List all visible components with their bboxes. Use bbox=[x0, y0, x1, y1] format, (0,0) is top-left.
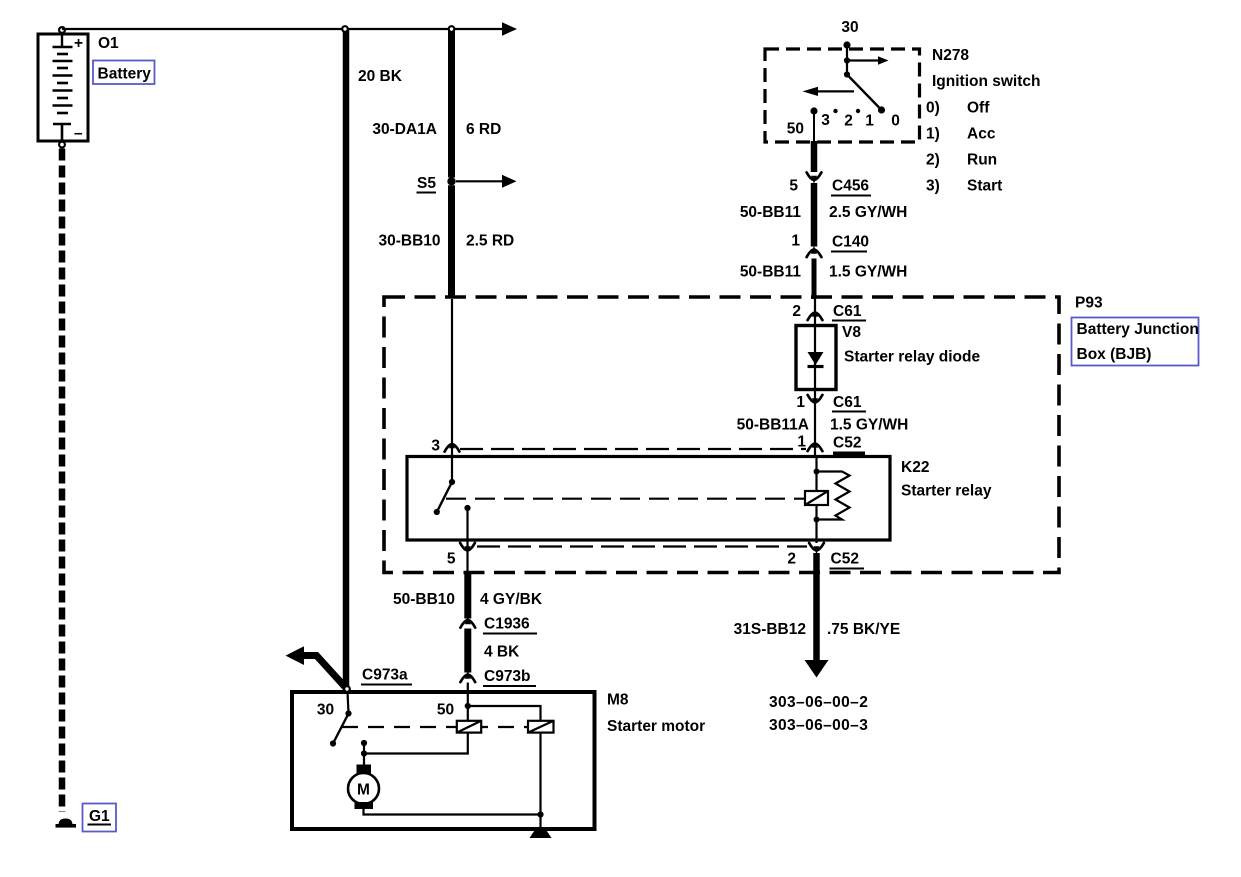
coil bottom node bbox=[814, 517, 820, 523]
starter motor M8 box bbox=[292, 692, 595, 829]
svg-text:1): 1) bbox=[926, 126, 940, 143]
connector pin 5 arrow bbox=[460, 543, 475, 554]
svg-text:C973a: C973a bbox=[362, 667, 408, 684]
svg-text:30-DA1A: 30-DA1A bbox=[372, 121, 437, 138]
svg-text:Box (BJB): Box (BJB) bbox=[1077, 346, 1152, 363]
node terminal 50 bbox=[810, 107, 817, 114]
solenoid winding 2 bbox=[528, 721, 554, 733]
svg-text:1: 1 bbox=[865, 113, 874, 130]
wire to motor bbox=[363, 754, 365, 767]
P93 Battery Junction Box dashed outline bbox=[384, 297, 1059, 573]
relay contact pivot node bbox=[449, 479, 455, 485]
relay coil wire pin1 to pin2 bbox=[815, 457, 817, 544]
svg-text:Battery Junction: Battery Junction bbox=[1077, 321, 1199, 338]
label C973b bbox=[483, 668, 536, 686]
label C61 bbox=[832, 303, 866, 321]
svg-text:30-BB10: 30-BB10 bbox=[378, 233, 440, 250]
wire relay pin 5 bbox=[466, 508, 468, 573]
dashed connector bus C52 bottom bbox=[477, 545, 807, 547]
wire battery to G1 (dashed heavy) bbox=[59, 149, 66, 813]
ground arrow 31S-BB12 bbox=[805, 660, 829, 678]
arrow right inside switch bbox=[847, 56, 889, 65]
svg-text:C52: C52 bbox=[833, 435, 861, 452]
svg-text:31S-BB12: 31S-BB12 bbox=[734, 621, 806, 638]
svg-text:50: 50 bbox=[437, 702, 454, 719]
svg-text:Run: Run bbox=[967, 152, 997, 169]
connector C140 bbox=[807, 246, 822, 257]
label C456 bbox=[831, 178, 871, 196]
wire winding2 to ground junction bbox=[539, 733, 541, 815]
svg-text:30: 30 bbox=[841, 19, 858, 36]
relay coil resistor zigzag bbox=[817, 472, 850, 520]
svg-text:C1936: C1936 bbox=[484, 616, 530, 633]
label C140 bbox=[831, 234, 869, 252]
svg-text:G1: G1 bbox=[89, 808, 110, 825]
svg-text:50-BB11: 50-BB11 bbox=[740, 264, 802, 281]
svg-text:303–06–00–2: 303–06–00–2 bbox=[769, 694, 868, 711]
connector C973b bbox=[460, 671, 475, 682]
node at 6 RD top bbox=[449, 26, 455, 32]
svg-text:2: 2 bbox=[787, 551, 796, 568]
position dot between 3 and 2 bbox=[833, 109, 837, 113]
wire inside P93 from C61 to relay pin 1 bbox=[814, 299, 816, 457]
node switch feed bbox=[844, 57, 850, 63]
battery positive node bbox=[59, 27, 65, 33]
relay armature dashed link bbox=[446, 498, 805, 500]
svg-text:2): 2) bbox=[926, 152, 940, 169]
wire top horizontal from battery bbox=[62, 28, 502, 30]
svg-text:S5: S5 bbox=[417, 175, 436, 192]
svg-text:Ignition switch: Ignition switch bbox=[932, 73, 1041, 90]
svg-text:–: – bbox=[74, 125, 83, 142]
motor M top terminal bbox=[357, 765, 372, 775]
motor feed node bbox=[361, 750, 367, 756]
svg-text:50-BB11A: 50-BB11A bbox=[737, 417, 809, 434]
svg-text:C973b: C973b bbox=[484, 668, 531, 685]
svg-text:3): 3) bbox=[926, 178, 940, 195]
ground G1 symbol bbox=[56, 819, 77, 828]
svg-text:4 GY/BK: 4 GY/BK bbox=[480, 591, 543, 608]
ground junction node bbox=[537, 811, 543, 817]
svg-text:0): 0) bbox=[926, 100, 940, 117]
connector pin 3 arrow bbox=[445, 440, 460, 451]
svg-text:2.5 RD: 2.5 RD bbox=[466, 233, 514, 250]
fixed contact node upper bbox=[361, 740, 367, 746]
svg-text:50-BB10: 50-BB10 bbox=[393, 591, 455, 608]
off-page arrow left (to starter motor feed) bbox=[286, 646, 347, 688]
svg-text:Starter relay: Starter relay bbox=[901, 483, 992, 500]
solenoid armature dashed link bbox=[342, 726, 540, 728]
svg-text:C52: C52 bbox=[831, 551, 859, 568]
connector C61 (pin 1) bbox=[808, 395, 823, 406]
connector C1936 bbox=[460, 616, 475, 627]
wire 31S-BB12 .75 BK/YE bbox=[813, 553, 820, 661]
fixed contact link bbox=[363, 743, 365, 754]
starter relay K22 box bbox=[407, 457, 890, 541]
svg-text:50: 50 bbox=[787, 121, 804, 138]
svg-text:Start: Start bbox=[967, 178, 1002, 195]
diode symbol bbox=[808, 352, 824, 367]
label C52 (lower) bbox=[830, 551, 865, 569]
Battery hyperlink box bbox=[93, 61, 155, 85]
label C1936 bbox=[483, 616, 537, 634]
position dot between 2 and 1 bbox=[856, 109, 860, 113]
svg-text:Starter motor: Starter motor bbox=[607, 718, 705, 735]
wire 50-BB11 1.5 GY/WH bbox=[812, 259, 817, 300]
wire pin 30 lead bbox=[348, 692, 349, 714]
battery O1 bbox=[38, 33, 88, 142]
node rotor pivot bbox=[844, 71, 850, 77]
svg-text:V8: V8 bbox=[842, 324, 861, 341]
battery negative node bbox=[59, 142, 65, 148]
wire motor to ground junction bbox=[364, 809, 541, 815]
wire terminal 50 to box edge bbox=[813, 113, 815, 141]
svg-text:2: 2 bbox=[792, 303, 801, 320]
diode V8 box bbox=[796, 326, 836, 390]
svg-text:C140: C140 bbox=[832, 234, 869, 251]
wire 30-BB10 inside P93 to relay pin 3 bbox=[451, 299, 453, 482]
svg-text:5: 5 bbox=[789, 178, 798, 195]
svg-text:3: 3 bbox=[821, 112, 830, 129]
connector C52 (pin 2) bbox=[809, 543, 824, 554]
svg-text:O1: O1 bbox=[98, 35, 119, 52]
svg-text:C61: C61 bbox=[833, 303, 862, 320]
relay fixed contact node bbox=[464, 505, 470, 511]
svg-text:2: 2 bbox=[844, 113, 853, 130]
svg-text:1: 1 bbox=[796, 394, 805, 411]
node terminal 30 bbox=[843, 41, 850, 48]
label C61 (lower) bbox=[832, 394, 866, 412]
svg-text:P93: P93 bbox=[1075, 295, 1103, 312]
svg-text:5: 5 bbox=[447, 551, 456, 568]
wire winding1 to motor branch bbox=[364, 733, 468, 754]
solenoid winding 1 bbox=[457, 721, 481, 733]
rotor arm to position 0 bbox=[847, 75, 882, 111]
svg-text:+: + bbox=[74, 35, 83, 52]
G1 hyperlink box bbox=[83, 804, 117, 832]
wire 4 BK bbox=[464, 629, 471, 673]
svg-text:C61: C61 bbox=[833, 394, 862, 411]
motor switch pivot node bbox=[345, 710, 351, 716]
wire C973b to pin 50 bbox=[467, 683, 469, 707]
relay coil box bbox=[805, 491, 828, 505]
svg-text:Starter relay diode: Starter relay diode bbox=[844, 349, 980, 366]
svg-text:Battery: Battery bbox=[98, 66, 152, 83]
svg-text:3: 3 bbox=[431, 438, 440, 455]
svg-text:303–06–00–3: 303–06–00–3 bbox=[769, 717, 868, 734]
wire 30-DA1A 6 RD bbox=[448, 30, 455, 178]
wire 50 switch to C456 bbox=[811, 141, 818, 172]
wire relay pin5 to C1936 (4 GY/BK) bbox=[464, 574, 471, 619]
label C52 with heavy bar bbox=[833, 435, 865, 458]
connector C52 (pin 1) bbox=[808, 440, 823, 451]
node pin 30 entry bbox=[344, 686, 350, 692]
svg-text:N278: N278 bbox=[932, 47, 969, 64]
starter case ground symbol bbox=[530, 831, 552, 839]
svg-text:20 BK: 20 BK bbox=[358, 68, 403, 85]
connector C61 (pin 2) bbox=[808, 309, 823, 320]
S5 off-page arrow bbox=[456, 175, 517, 188]
wire junction to case ground bbox=[539, 815, 541, 832]
motor switch arm end node bbox=[330, 740, 336, 746]
svg-text:1: 1 bbox=[797, 434, 806, 451]
svg-text:30: 30 bbox=[317, 702, 334, 719]
svg-text:1.5 GY/WH: 1.5 GY/WH bbox=[829, 264, 907, 281]
label C973a bbox=[361, 667, 412, 685]
svg-text:Off: Off bbox=[967, 100, 990, 117]
svg-text:.75 BK/YE: .75 BK/YE bbox=[827, 621, 900, 638]
label S5 bbox=[417, 175, 437, 193]
splice S5 bbox=[447, 177, 455, 185]
arrow left inside switch bbox=[803, 87, 855, 96]
relay contact arm bbox=[437, 482, 452, 512]
Battery Junction Box hyperlink box bbox=[1072, 318, 1199, 366]
svg-text:M8: M8 bbox=[607, 692, 629, 709]
coil top node bbox=[814, 469, 820, 475]
svg-text:1.5 GY/WH: 1.5 GY/WH bbox=[830, 417, 908, 434]
wire pin50 branch right bbox=[468, 706, 541, 721]
svg-text:C456: C456 bbox=[832, 178, 869, 195]
motor switch arm bbox=[333, 714, 349, 744]
connector C456 bbox=[807, 172, 822, 183]
node pin 50 bbox=[465, 703, 471, 709]
wire terminal 30 into switch bbox=[846, 45, 848, 75]
svg-text:2.5 GY/WH: 2.5 GY/WH bbox=[829, 204, 907, 221]
motor M bottom terminal bbox=[355, 802, 374, 809]
svg-text:K22: K22 bbox=[901, 459, 929, 476]
svg-text:Acc: Acc bbox=[967, 126, 996, 143]
node position 0 bbox=[878, 106, 885, 113]
svg-text:M: M bbox=[357, 782, 370, 799]
wire pin50 to solenoid winding 1 bbox=[467, 706, 469, 721]
svg-text:0: 0 bbox=[891, 113, 900, 130]
svg-text:1: 1 bbox=[791, 233, 800, 250]
relay contact arm end node bbox=[434, 509, 440, 515]
svg-text:4 BK: 4 BK bbox=[484, 644, 520, 661]
svg-text:50-BB11: 50-BB11 bbox=[740, 204, 802, 221]
ignition switch N278 dashed box bbox=[765, 49, 920, 142]
motor M bbox=[348, 773, 379, 804]
wire 20 BK vertical bbox=[343, 30, 350, 687]
wire 30-BB10 2.5 RD bbox=[448, 185, 455, 298]
svg-text:6 RD: 6 RD bbox=[466, 121, 501, 138]
dashed connector bus C52 top bbox=[460, 448, 806, 450]
off-page arrow right (top) bbox=[502, 22, 517, 35]
node at 20 BK top bbox=[342, 26, 348, 32]
wire 50-BB11 2.5 GY/WH bbox=[811, 183, 818, 247]
